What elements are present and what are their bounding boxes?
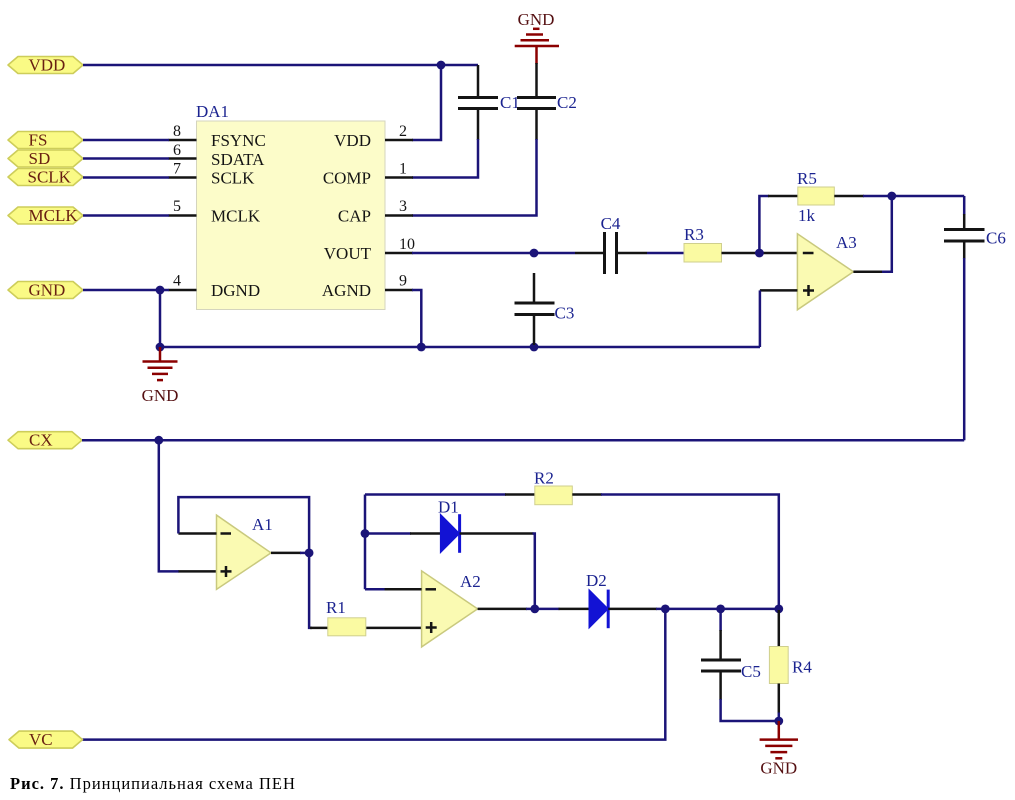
svg-text:SD: SD xyxy=(29,149,51,168)
wire C5 bottom xyxy=(721,699,779,721)
junction R4 top xyxy=(774,605,783,614)
pin 6 SDATA xyxy=(169,142,197,159)
pin 4 DGND xyxy=(169,273,197,291)
pin 7 SCLK xyxy=(169,161,197,178)
wire D1 to output xyxy=(533,534,535,609)
ground GND top xyxy=(515,10,559,64)
wire AGND xyxy=(412,290,421,347)
svg-text:5: 5 xyxy=(173,198,181,215)
svg-text:R3: R3 xyxy=(684,225,704,244)
junction VC drop xyxy=(661,605,670,614)
svg-text:C4: C4 xyxy=(601,214,621,233)
svg-text:CX: CX xyxy=(29,431,53,450)
svg-text:A3: A3 xyxy=(836,233,857,252)
pin 3 CAP xyxy=(385,198,413,216)
pin 5 MCLK xyxy=(169,198,197,216)
svg-text:SCLK: SCLK xyxy=(28,168,72,187)
resistor R5 xyxy=(768,169,864,225)
wire GND riser xyxy=(159,290,162,347)
wire R3 to A3 minus xyxy=(722,252,798,255)
wire C2 to CAP xyxy=(412,139,537,216)
svg-text:A1: A1 xyxy=(252,515,273,534)
capacitor C3 xyxy=(515,273,575,345)
svg-text:CAP: CAP xyxy=(338,207,371,226)
svg-text:VDD: VDD xyxy=(334,131,371,150)
svg-text:C6: C6 xyxy=(986,229,1006,248)
wire D2 to R4 xyxy=(656,608,779,611)
capacitor C4 xyxy=(575,214,647,274)
wire A3 plus stub xyxy=(760,289,798,292)
wire R2 rail left xyxy=(365,493,506,496)
svg-text:7: 7 xyxy=(173,161,181,178)
wire SCLK xyxy=(83,176,169,179)
wire VDD rail xyxy=(83,64,478,67)
port VC xyxy=(9,730,83,749)
junction rail C3 xyxy=(530,343,539,352)
wire SD xyxy=(83,157,169,160)
junction A2 out/D1 xyxy=(530,605,539,614)
pin 10 VOUT xyxy=(385,236,415,253)
svg-text:R2: R2 xyxy=(534,469,554,488)
port MCLK xyxy=(8,206,83,225)
wire C6 to CX line xyxy=(963,258,966,440)
port FS xyxy=(8,131,83,150)
svg-text:2: 2 xyxy=(399,123,407,140)
junction ground bottom xyxy=(774,717,783,726)
svg-text:GND: GND xyxy=(760,759,797,778)
port GND xyxy=(8,281,83,300)
svg-text:SCLK: SCLK xyxy=(211,169,255,188)
capacitor C6 xyxy=(944,196,1006,259)
wire ground rail xyxy=(160,346,760,349)
wire left vertical R2/D1 xyxy=(364,495,367,590)
svg-text:8: 8 xyxy=(173,123,181,140)
ground GND left xyxy=(142,347,179,405)
svg-text:GND: GND xyxy=(518,10,555,29)
svg-text:MCLK: MCLK xyxy=(211,207,261,226)
capacitor C2 xyxy=(517,63,577,140)
wire C1 to COMP xyxy=(412,139,478,178)
port CX xyxy=(8,431,82,450)
svg-text:FS: FS xyxy=(29,131,48,150)
svg-text:MCLK: MCLK xyxy=(29,206,79,225)
wire C4 to R3 xyxy=(647,252,684,255)
svg-text:DGND: DGND xyxy=(211,281,260,300)
pin 2 VDD xyxy=(385,123,413,140)
svg-text:SDATA: SDATA xyxy=(211,150,265,169)
svg-text:DA1: DA1 xyxy=(196,102,229,121)
svg-text:C1: C1 xyxy=(500,93,520,112)
junction D1 left xyxy=(361,529,370,538)
svg-text:D2: D2 xyxy=(586,571,607,590)
wire FS xyxy=(83,139,169,142)
wire A3 output xyxy=(853,196,891,272)
resistor R4 xyxy=(769,610,812,714)
port VDD xyxy=(8,56,83,75)
junction C5 top xyxy=(716,605,725,614)
svg-text:Рис. 7. Принципиальная схема П: Рис. 7. Принципиальная схема ПЕН xyxy=(10,774,296,793)
pin 8 FSYNC xyxy=(169,123,197,140)
wire R1 to A2 plus xyxy=(366,627,421,630)
wire R4 bottom xyxy=(778,713,781,722)
svg-text:C2: C2 xyxy=(557,93,577,112)
op-amp A1 xyxy=(217,515,273,589)
svg-text:A2: A2 xyxy=(460,572,481,591)
capacitor C5 xyxy=(701,609,761,700)
wire A1 output xyxy=(271,552,309,555)
junction rail AGND xyxy=(417,343,426,352)
wire R5 right xyxy=(863,195,964,198)
junction A1 output xyxy=(305,549,314,558)
op-amp A2 xyxy=(422,571,481,647)
svg-text:9: 9 xyxy=(399,273,407,290)
port SCLK xyxy=(8,168,83,187)
svg-text:GND: GND xyxy=(29,281,66,300)
pin 1 COMP xyxy=(385,161,413,178)
svg-text:R5: R5 xyxy=(797,169,817,188)
svg-text:VOUT: VOUT xyxy=(324,244,372,263)
pin 9 AGND xyxy=(385,273,413,291)
wire R2 rail right xyxy=(601,495,779,609)
junction VDD/pin2 xyxy=(437,61,446,70)
port SD xyxy=(8,149,83,168)
wire CX riser to A1 plus xyxy=(159,440,217,571)
svg-text:FSYNC: FSYNC xyxy=(211,131,266,150)
resistor R3 xyxy=(684,225,722,262)
op-amp A3 xyxy=(797,233,856,310)
junction CX xyxy=(154,436,163,445)
svg-text:R1: R1 xyxy=(326,598,346,617)
svg-text:AGND: AGND xyxy=(322,281,371,300)
svg-text:10: 10 xyxy=(399,236,415,253)
wire A2 output xyxy=(478,608,560,611)
resistor R1 xyxy=(326,598,366,636)
svg-text:VC: VC xyxy=(29,730,53,749)
svg-text:GND: GND xyxy=(142,386,179,405)
chip DA1 xyxy=(196,102,385,310)
svg-text:COMP: COMP xyxy=(323,169,371,188)
svg-text:6: 6 xyxy=(173,142,181,159)
wire A1 feedback xyxy=(178,497,309,553)
svg-text:C5: C5 xyxy=(741,662,761,681)
wire A2 minus stub xyxy=(365,588,422,591)
junction A3 minus xyxy=(755,249,764,258)
wire feedback riser xyxy=(759,196,769,253)
svg-text:VDD: VDD xyxy=(29,56,66,75)
junction DGND xyxy=(156,286,165,295)
wire CX line xyxy=(82,439,964,442)
wire VC drop xyxy=(83,609,666,740)
svg-text:3: 3 xyxy=(399,198,407,215)
capacitor C1 xyxy=(458,65,520,140)
wire VOUT xyxy=(412,252,575,255)
wire pin2 riser xyxy=(412,65,441,140)
wire A3 plus riser xyxy=(759,290,762,347)
junction VOUT/C3 xyxy=(530,249,539,258)
wire MCLK xyxy=(83,214,169,217)
diode D2 xyxy=(559,571,658,628)
resistor R2 xyxy=(505,469,602,505)
wire A1 out to R1 xyxy=(309,553,328,628)
ground GND bottom xyxy=(760,721,798,778)
svg-text:D1: D1 xyxy=(438,498,459,517)
wire A1 minus stub xyxy=(178,532,216,535)
svg-text:R4: R4 xyxy=(792,658,812,677)
junction R5/output xyxy=(887,192,896,201)
junction rail left xyxy=(156,343,165,352)
svg-text:1k: 1k xyxy=(798,206,816,225)
wire GND port xyxy=(83,289,169,292)
svg-text:C3: C3 xyxy=(555,304,575,323)
svg-text:1: 1 xyxy=(399,161,407,178)
svg-text:4: 4 xyxy=(173,273,181,290)
diode D1 xyxy=(365,498,534,553)
